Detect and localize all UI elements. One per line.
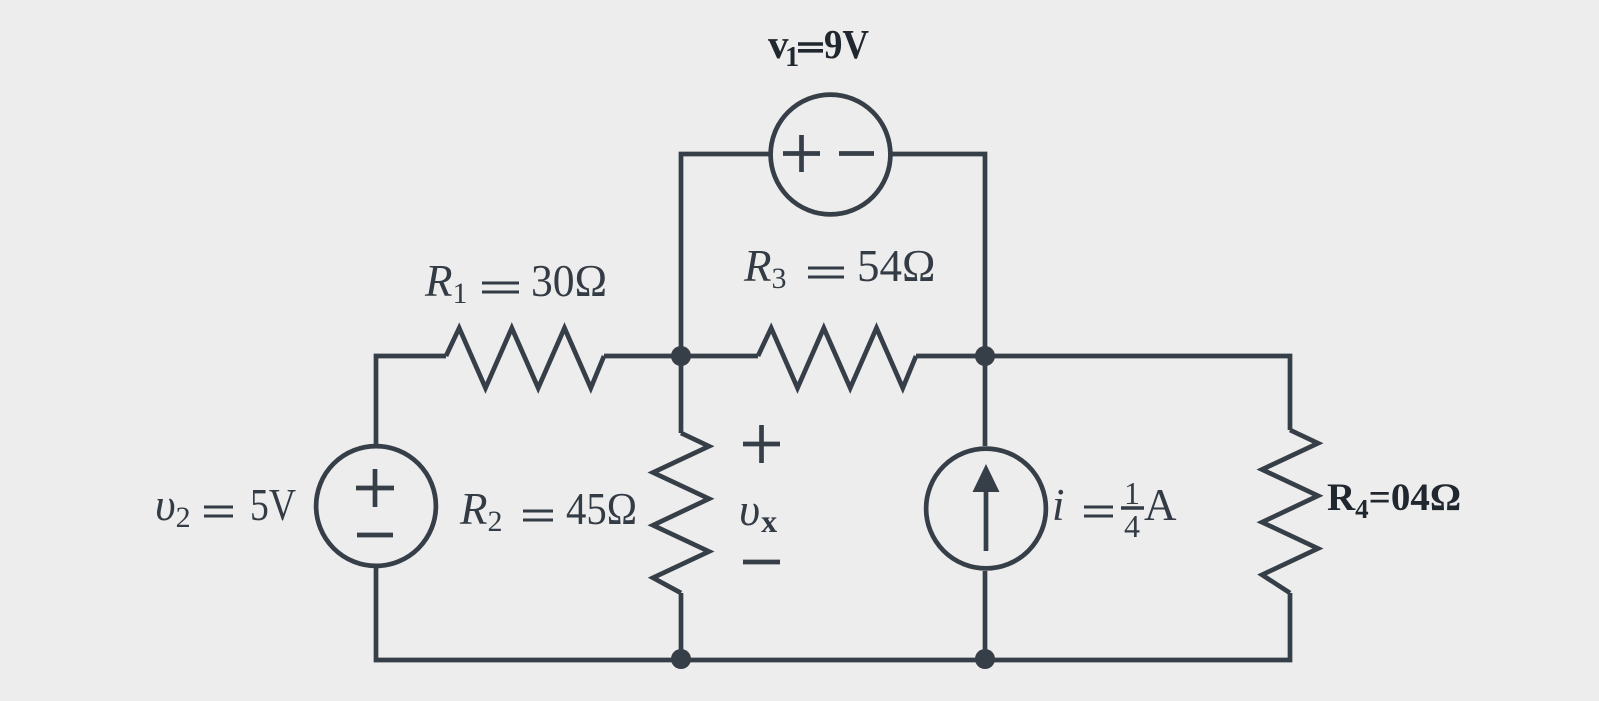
svg-text:5V: 5V xyxy=(250,480,296,530)
current source I1 xyxy=(926,449,1046,569)
node D xyxy=(975,649,995,669)
label R3 = 54 Ohm xyxy=(743,241,935,295)
label R1 = 30 Ohm xyxy=(424,256,607,310)
wire xyxy=(604,354,681,359)
resistor R2 xyxy=(653,433,709,593)
wire xyxy=(376,356,446,444)
node B xyxy=(975,346,995,366)
svg-text:45Ω: 45Ω xyxy=(566,484,637,534)
resistor R3 xyxy=(758,328,916,388)
wire xyxy=(916,354,985,359)
svg-text:54Ω: 54Ω xyxy=(857,241,935,291)
label i = 1/4 A xyxy=(1052,475,1177,544)
svg-text:R4=04Ω: R4=04Ω xyxy=(1327,476,1461,524)
svg-text:1: 1 xyxy=(1124,475,1140,511)
wire xyxy=(376,568,1290,660)
resistor R4 xyxy=(1262,430,1318,593)
label R4 = 04 Ohm xyxy=(1327,476,1461,524)
label v2 = 5V xyxy=(155,480,296,534)
label v1=9V xyxy=(768,21,869,73)
wire xyxy=(679,356,684,433)
svg-text:i: i xyxy=(1052,480,1065,530)
svg-text:9V: 9V xyxy=(824,21,869,67)
svg-text:A: A xyxy=(1144,480,1177,530)
label vx with polarity xyxy=(743,425,780,562)
wire xyxy=(681,154,769,356)
voltage source V2 xyxy=(316,446,436,566)
label R2 = 45 Ohm xyxy=(459,484,637,538)
node C xyxy=(671,649,691,669)
wire xyxy=(983,571,988,660)
svg-text:4: 4 xyxy=(1124,508,1140,544)
wire xyxy=(681,354,758,359)
resistor R1 xyxy=(446,328,604,388)
voltage source V1 xyxy=(771,95,891,215)
wire xyxy=(985,356,1290,430)
wire xyxy=(679,593,684,660)
wire xyxy=(892,154,985,356)
svg-text:30Ω: 30Ω xyxy=(531,256,607,306)
wire xyxy=(983,356,988,446)
node A xyxy=(671,346,691,366)
